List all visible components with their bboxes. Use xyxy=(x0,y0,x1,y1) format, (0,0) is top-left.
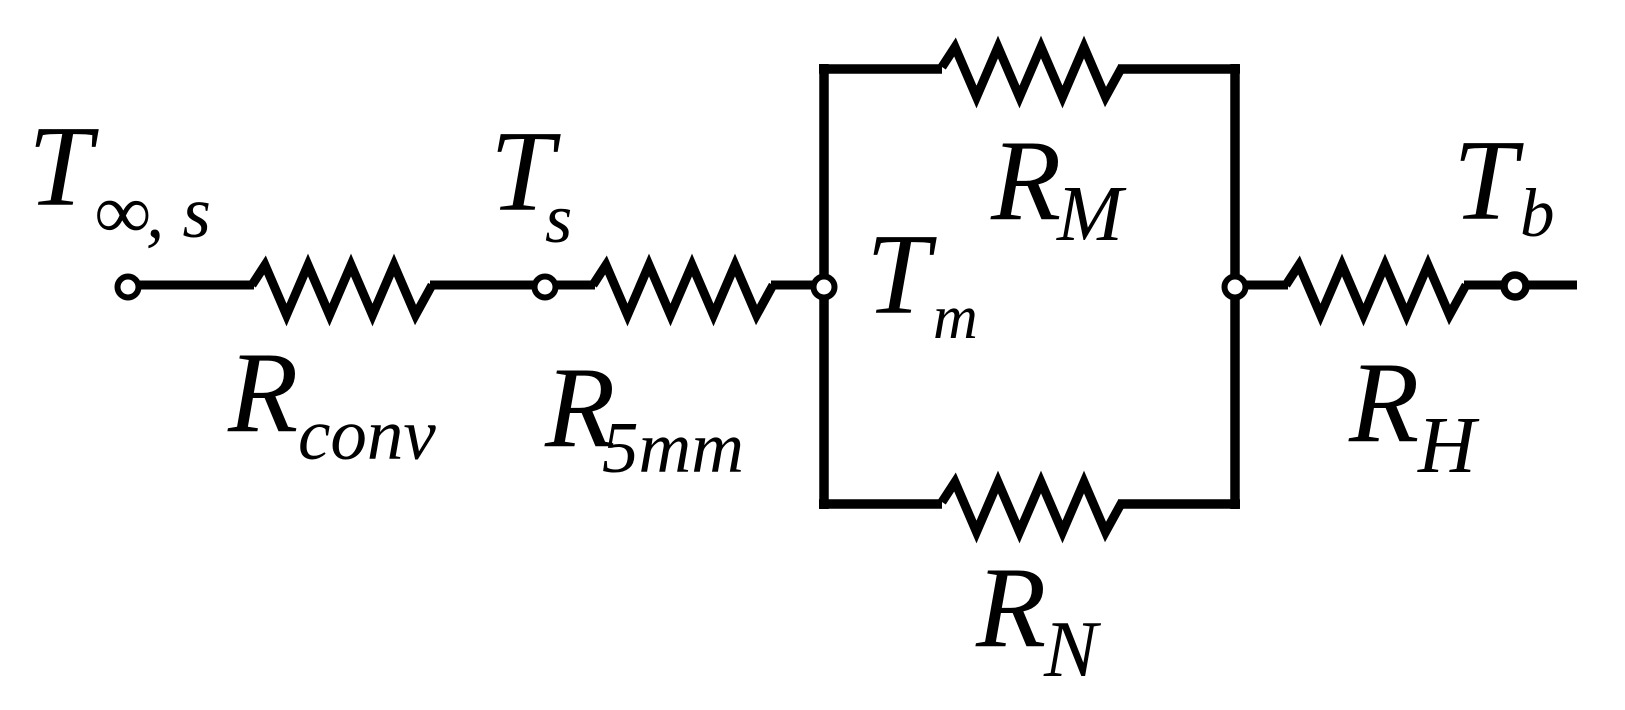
label T_s xyxy=(490,108,572,258)
svg-text:R: R xyxy=(227,329,298,456)
wire from R_conv to node T_s xyxy=(430,281,546,290)
wire from R_5mm to node T_m xyxy=(771,281,824,290)
wire from right node to R_H xyxy=(1235,281,1288,290)
wire from R_H to node T_b xyxy=(1464,281,1516,290)
wire top branch right segment xyxy=(1118,64,1240,74)
label R_N xyxy=(975,544,1102,694)
svg-text:conv: conv xyxy=(298,394,436,475)
svg-text:R: R xyxy=(975,544,1046,671)
wire left vertical branch of parallel loop xyxy=(819,64,829,509)
node T∞,s terminal circle xyxy=(118,277,139,298)
resistor R_5mm xyxy=(593,265,773,315)
label R_conv xyxy=(227,329,436,475)
svg-text:H: H xyxy=(1417,402,1480,490)
svg-text:5mm: 5mm xyxy=(602,407,744,488)
svg-text:s: s xyxy=(545,181,572,258)
resistor R_conv xyxy=(252,265,432,315)
wire top branch left segment xyxy=(819,64,942,74)
resistor R_H xyxy=(1286,265,1466,315)
wire right vertical branch of parallel loop xyxy=(1230,64,1240,509)
svg-text:b: b xyxy=(1520,175,1555,251)
wire from T∞,s terminal to R_conv xyxy=(138,281,254,290)
resistor R_N xyxy=(942,482,1122,532)
svg-text:T: T xyxy=(28,103,99,230)
svg-text:∞: ∞ xyxy=(95,168,151,255)
label T_b xyxy=(1453,117,1555,251)
svg-text:M: M xyxy=(1056,171,1127,258)
label R_M xyxy=(990,117,1127,258)
label R_5mm xyxy=(544,344,744,488)
svg-text:m: m xyxy=(933,284,978,352)
label T∞,s xyxy=(28,103,211,255)
wire output stub right of T_b xyxy=(1516,281,1577,290)
wire from node T_s to R_5mm xyxy=(546,281,595,290)
node T_b terminal circle xyxy=(1504,275,1526,297)
svg-text:, s: , s xyxy=(146,172,211,253)
wire bottom branch left segment xyxy=(819,499,942,509)
node T_m circle xyxy=(814,277,835,298)
right node circle (junction of R_M, R_N, R_H) xyxy=(1225,277,1246,298)
resistor R_M xyxy=(942,47,1122,97)
label R_H xyxy=(1348,339,1480,490)
node T_s circle xyxy=(535,277,556,298)
svg-text:R: R xyxy=(990,117,1061,244)
label T_m xyxy=(866,211,978,352)
wire bottom branch right segment xyxy=(1118,499,1240,509)
svg-text:N: N xyxy=(1043,606,1102,694)
svg-text:T: T xyxy=(866,211,937,338)
svg-text:R: R xyxy=(1348,339,1419,466)
svg-text:T: T xyxy=(1453,117,1524,244)
